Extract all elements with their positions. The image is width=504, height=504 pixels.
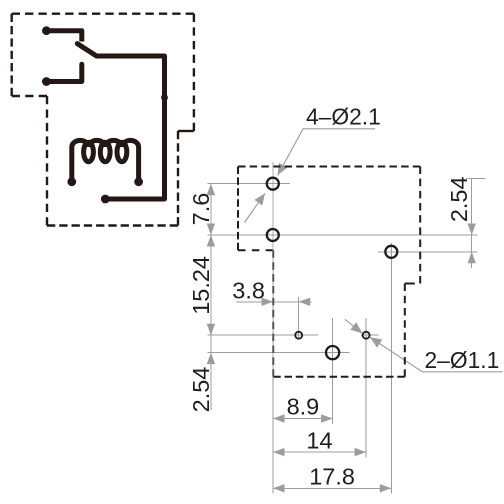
wire: armature blade + common wire down and left — [77, 44, 164, 199]
contact pin 2 (NO fixed contact) — [46, 64, 81, 81]
terminal dot coil left — [67, 177, 76, 186]
extension line row4 — [208, 352, 350, 354]
footprint right edge lower — [404, 284, 406, 377]
contact pin 1 (NC fixed contact) — [46, 31, 81, 42]
extension line bottom-left column — [272, 377, 274, 494]
leader arrow 2-Ø1.1 upper-left — [350, 322, 362, 333]
leader 4-Ø2.1 lower tail — [245, 193, 266, 222]
extension line hole S1 column — [298, 297, 300, 339]
leader 2-Ø1.1 upper tail — [345, 319, 362, 333]
arrow 17.8 right — [380, 484, 392, 492]
terminal dot coil right — [134, 177, 143, 186]
arrow 15.24 bottom down — [207, 324, 215, 336]
leader arrow 4-Ø2.1 lower — [255, 193, 266, 205]
junction dot on common wire — [161, 94, 168, 101]
leader arrow 4-Ø2.1 upper — [278, 163, 288, 175]
svg-text:2.54: 2.54 — [188, 367, 214, 413]
arrowheads — [207, 163, 476, 493]
hole C4 (2.1) — [326, 346, 339, 359]
extension line hole C4 column — [332, 318, 334, 424]
outline top edge — [12, 12, 194, 14]
footprint left step — [238, 249, 273, 251]
svg-text:14: 14 — [306, 428, 332, 454]
dimension line 17.8 — [273, 487, 391, 489]
arrow 14 left — [273, 448, 285, 456]
shelf of right 2.54 — [467, 178, 486, 180]
outline step right — [178, 130, 194, 132]
footprint right edge upper — [419, 167, 421, 284]
extension line column holes C1 C2 (over dashes) — [272, 162, 274, 377]
svg-text:3.8: 3.8 — [232, 278, 265, 304]
footprint right step — [405, 283, 415, 285]
outline step left — [12, 95, 47, 97]
holes — [267, 178, 398, 360]
relay body dashed outline — [12, 14, 194, 226]
svg-text:15.24: 15.24 — [188, 256, 214, 315]
leader arrow 2-Ø1.1 lower-right — [370, 337, 382, 347]
footprint bottom edge — [273, 376, 405, 378]
dimension line 8.9 — [273, 418, 333, 420]
extension line hole C3 row — [378, 251, 478, 253]
hole C3 (2.1) — [385, 246, 397, 258]
arrow 2.54 right down — [468, 224, 476, 236]
arrow 3.8 right pointing left — [299, 298, 311, 306]
hole C2 (2.1) — [267, 229, 279, 241]
arrow 15.24 top up — [207, 235, 215, 247]
coil loop 2 — [100, 142, 110, 162]
extension line row2 (long) — [208, 234, 478, 236]
extension line row1 — [208, 183, 290, 185]
coil L1 humps — [72, 140, 139, 181]
outline right edge lower — [177, 131, 179, 226]
svg-text:2.54: 2.54 — [446, 176, 472, 222]
outline left edge upper — [10, 14, 12, 96]
outline right edge upper — [193, 14, 195, 131]
terminal dot pin 1 — [42, 26, 51, 35]
dimension line 3.8 — [236, 301, 312, 303]
leader lines (smooth) — [245, 129, 503, 372]
arrow 7.6 bottom down — [207, 224, 215, 236]
footprint outline dashed — [238, 167, 420, 377]
coil loop 3 — [117, 142, 127, 162]
arrow 7.6 top up — [207, 184, 215, 196]
extension line hole C3 column — [390, 243, 392, 494]
footprint left edge lower — [272, 250, 274, 376]
arrow 8.9 left — [273, 414, 285, 422]
extension line row3 right — [361, 334, 379, 336]
arrow 3.8 left pointing right — [262, 298, 274, 306]
terminal dot common pin — [101, 195, 110, 204]
hole S1 (1.1) — [295, 332, 302, 339]
svg-text:17.8: 17.8 — [309, 463, 355, 489]
terminal dot pin 2 — [42, 77, 51, 86]
svg-text:8.9: 8.9 — [287, 394, 320, 420]
footprint top edge — [238, 166, 420, 168]
footprint left edge upper — [237, 167, 239, 251]
outline bottom edge — [47, 224, 178, 226]
gray extension and dimension lines — [208, 179, 485, 494]
dimension line 14 — [273, 451, 366, 453]
arrow 2.54 bottom-left up — [207, 353, 215, 365]
svg-text:2–Ø1.1: 2–Ø1.1 — [425, 347, 500, 373]
extension line hole S2 column — [365, 318, 367, 458]
arrow 2.54 right up — [468, 252, 476, 263]
arrow 8.9 right — [321, 414, 333, 422]
arrow 14 right — [355, 448, 367, 456]
svg-text:4–Ø2.1: 4–Ø2.1 — [306, 104, 381, 130]
outline left edge lower — [46, 96, 48, 226]
extension line row3 left — [208, 334, 318, 336]
coil loop 1 — [84, 142, 94, 162]
hole S2 (1.1) — [363, 332, 370, 339]
dimension line 7.6 / 15.24 / 2.54 left column — [210, 184, 212, 410]
svg-text:7.6: 7.6 — [188, 193, 214, 226]
dimension line 2.54 right column — [471, 179, 473, 268]
arrow 17.8 left — [273, 484, 285, 492]
leader 2-Ø1.1 line — [370, 337, 503, 372]
hole C1 (2.1) — [267, 178, 279, 190]
leader 4-Ø2.1 line — [278, 129, 376, 176]
